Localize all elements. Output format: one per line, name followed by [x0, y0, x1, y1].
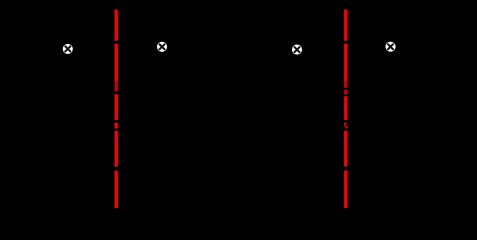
- wire: highlighted red conductor (right circuit, net +): [344, 10, 347, 209]
- wire: black return conductor (lower, crosses both red wires): [30, 129, 450, 131]
- switch S1: contact squiggle over red wire 2 (upper-right blob): [346, 123, 349, 126]
- component overlay: dim region on red wire 1 (terminal block): [113, 81, 120, 95]
- switch S1: contact squiggle over red wire 2 (lower-left blob): [343, 126, 346, 129]
- wire: black tap crossing red wire 1: [108, 91, 125, 93]
- wire: black tap crossing red wire 2 (upper): [338, 88, 355, 90]
- wire: black return conductor (upper, crosses both red wires): [30, 120, 450, 123]
- wire: highlighted red conductor (left circuit, net +): [115, 10, 118, 209]
- lamp L3: [292, 45, 302, 55]
- component overlay: dim region on red wire 2 (switch S1 body): [342, 81, 349, 96]
- wire: black branch wire to lamp L1/L2 (crosses red wire 1): [20, 41, 230, 44]
- lamp L2: [157, 42, 167, 52]
- lamp L1: [63, 44, 73, 54]
- lamp L4: [385, 42, 395, 52]
- wire: black tap crossing red wire 2 (lower): [338, 94, 355, 96]
- wire: black branch wire to lamp L3/L4 (crosses red wire 2): [250, 41, 460, 44]
- wire: diagonal crossover X on red wire 2: [340, 165, 351, 173]
- wire: diagonal crossover X on red wire 1: [111, 165, 122, 173]
